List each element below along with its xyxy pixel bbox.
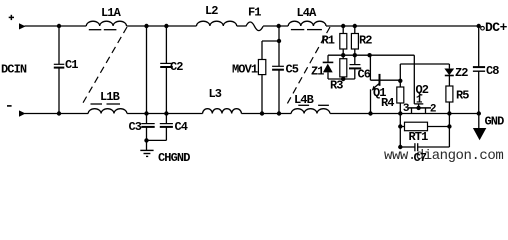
svg-text:R3: R3 [330, 79, 343, 93]
svg-text:DC+: DC+ [485, 20, 508, 35]
svg-text:L4B: L4B [294, 93, 314, 107]
svg-text:L3: L3 [209, 87, 222, 101]
svg-text:C4: C4 [175, 120, 188, 134]
svg-text:L1B: L1B [100, 90, 120, 104]
svg-text:R2: R2 [359, 34, 372, 48]
svg-text:CHGND: CHGND [158, 151, 190, 165]
svg-text:C8: C8 [486, 64, 499, 78]
svg-text:C2: C2 [170, 60, 183, 74]
svg-text:C3: C3 [129, 120, 142, 134]
svg-text:Z2: Z2 [455, 66, 468, 80]
svg-text:GND: GND [485, 115, 505, 129]
svg-text:C5: C5 [286, 63, 299, 77]
svg-text:C7: C7 [414, 151, 427, 165]
svg-text:MOV1: MOV1 [232, 63, 258, 77]
svg-text:L1A: L1A [101, 6, 122, 20]
svg-text:Q1: Q1 [373, 86, 386, 100]
svg-text:1: 1 [416, 95, 423, 107]
svg-text:C1: C1 [65, 58, 78, 72]
svg-text:www.diangon.com: www.diangon.com [384, 148, 503, 164]
svg-text:L4A: L4A [297, 6, 318, 20]
svg-text:C6: C6 [358, 68, 371, 82]
svg-text:DCIN: DCIN [1, 63, 27, 77]
svg-text:Z1: Z1 [311, 65, 324, 79]
svg-text:3: 3 [403, 103, 410, 115]
svg-text:R5: R5 [456, 89, 469, 103]
svg-text:F1: F1 [248, 6, 261, 20]
svg-text:2: 2 [430, 104, 437, 116]
svg-text:RT1: RT1 [409, 130, 429, 144]
svg-text:L2: L2 [205, 4, 218, 18]
svg-text:R1: R1 [322, 34, 335, 48]
